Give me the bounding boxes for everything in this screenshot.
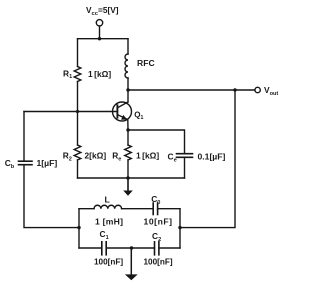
node ground junction xyxy=(126,176,129,179)
svg-text:100[nF]: 100[nF] xyxy=(144,258,173,267)
wire emitter to Ce xyxy=(128,130,185,154)
capacitor C2 xyxy=(155,242,159,255)
ground bias xyxy=(123,178,133,196)
svg-text:1[kΩ]: 1[kΩ] xyxy=(88,69,111,79)
output terminal Vout xyxy=(255,87,260,92)
svg-text:1[µF]: 1[µF] xyxy=(37,158,58,168)
node tank right junction xyxy=(178,226,181,229)
wire R1 bottom lead xyxy=(77,82,79,112)
wire tank right edge xyxy=(179,209,181,248)
capacitor Ce xyxy=(177,154,193,158)
svg-text:Cb: Cb xyxy=(5,158,15,170)
wire Cb top lead xyxy=(23,112,25,162)
node tank center junction xyxy=(130,246,133,249)
wire R2 top lead xyxy=(77,112,79,146)
node base junction xyxy=(76,110,79,113)
node output junction xyxy=(233,88,236,91)
capacitor C0 xyxy=(153,203,157,215)
svg-text:0.1[µF]: 0.1[µF] xyxy=(198,152,226,162)
svg-text:10[nF]: 10[nF] xyxy=(144,217,173,227)
resistor R2 xyxy=(74,145,81,160)
svg-text:100[nF]: 100[nF] xyxy=(94,258,123,267)
ground arrow xyxy=(125,248,138,280)
svg-text:C2: C2 xyxy=(152,231,161,243)
svg-text:R2: R2 xyxy=(63,151,72,163)
wire tank bottom rail middle xyxy=(106,247,154,249)
inductor L xyxy=(94,205,122,208)
svg-text:1 [mH]: 1 [mH] xyxy=(95,217,123,227)
svg-text:2[kΩ]: 2[kΩ] xyxy=(85,151,107,161)
node Vcc junction xyxy=(98,37,101,40)
wire RFC bottom lead xyxy=(127,78,129,90)
inductor RFC xyxy=(125,54,128,78)
wire base rail xyxy=(24,111,117,113)
wire tank to Vout line xyxy=(180,90,235,228)
svg-text:RFC: RFC xyxy=(137,58,155,68)
wire top rail xyxy=(78,38,129,40)
wire R2 bottom lead xyxy=(77,160,79,178)
wire tank top rail right xyxy=(158,208,180,210)
resistor R1 xyxy=(74,67,81,82)
wire Re bottom lead xyxy=(127,160,129,178)
node tank left junction xyxy=(77,226,80,229)
svg-text:Re: Re xyxy=(112,151,121,163)
resistor Re xyxy=(125,145,132,160)
svg-text:R1: R1 xyxy=(63,68,72,80)
capacitor C1 xyxy=(102,242,106,255)
wire tank left edge xyxy=(78,209,80,248)
transistor Q1 xyxy=(113,102,132,121)
Vcc supply terminal xyxy=(96,20,102,26)
wire tank bottom rail right xyxy=(159,247,180,249)
node emitter junction xyxy=(126,128,129,131)
svg-text:C1: C1 xyxy=(100,229,109,241)
svg-text:Vout: Vout xyxy=(264,85,278,97)
wire tank bottom rail left xyxy=(79,247,102,249)
wire Vcc stem xyxy=(99,26,101,39)
wire Cb bottom lead xyxy=(24,165,79,228)
wire collector to output xyxy=(128,89,255,91)
wire collector lead xyxy=(127,90,129,102)
wire Re top lead xyxy=(127,130,129,145)
svg-text:Ce: Ce xyxy=(168,152,177,164)
wire bias ground rail xyxy=(78,177,185,179)
wire Ce bottom lead xyxy=(184,157,186,178)
wire RFC top lead xyxy=(127,39,129,54)
wire R1 top lead xyxy=(77,39,79,67)
capacitor Cb xyxy=(19,161,33,165)
svg-text:Vcc=5[V]: Vcc=5[V] xyxy=(86,5,119,17)
svg-text:Q1: Q1 xyxy=(134,110,143,121)
node collector junction xyxy=(126,88,129,91)
wire tank top rail left xyxy=(79,208,94,210)
wire tank top rail middle xyxy=(122,208,154,210)
svg-text:L: L xyxy=(105,195,110,205)
wire emitter lead xyxy=(127,120,129,130)
svg-text:1[kΩ]: 1[kΩ] xyxy=(136,151,159,161)
